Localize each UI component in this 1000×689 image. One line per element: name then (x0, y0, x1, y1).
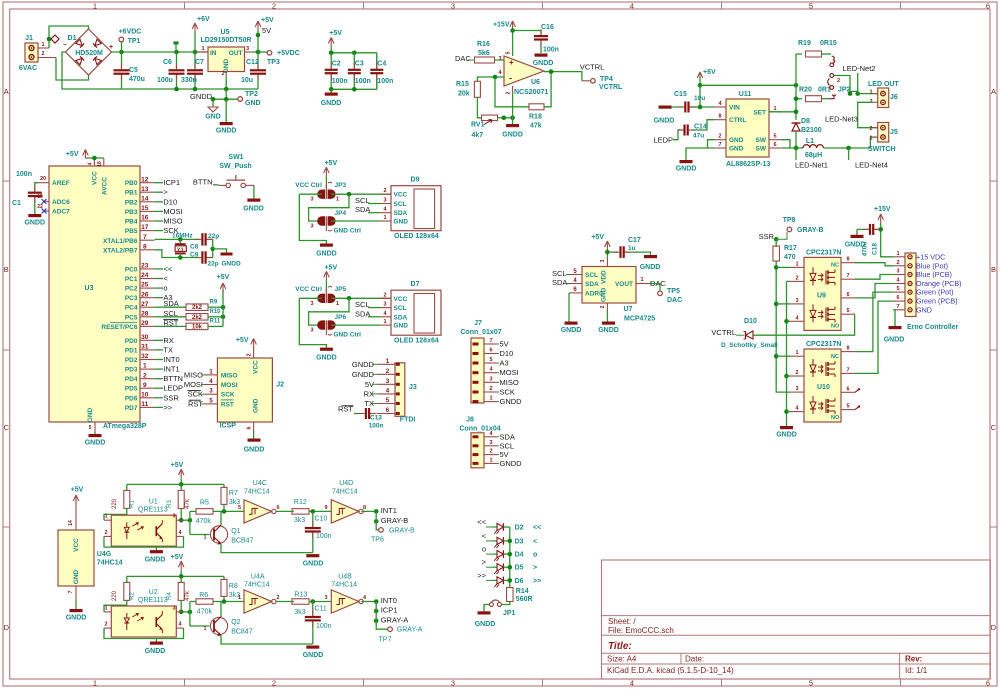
svg-text:-: - (509, 73, 512, 83)
svg-text:6VAC: 6VAC (19, 65, 37, 72)
svg-text:47k: 47k (185, 498, 191, 509)
svg-text:U4D: U4D (339, 480, 353, 487)
svg-text:RX: RX (163, 336, 173, 345)
svg-text:PB0: PB0 (125, 180, 138, 187)
svg-text:2: 2 (869, 126, 872, 132)
svg-text:3k3: 3k3 (294, 517, 305, 524)
svg-text:CPC2317N: CPC2317N (806, 341, 841, 348)
svg-text:5: 5 (489, 357, 492, 363)
svg-text:74HC14: 74HC14 (244, 582, 270, 589)
svg-text:J8: J8 (466, 417, 474, 424)
svg-text:8: 8 (143, 243, 147, 250)
svg-text:1: 1 (336, 197, 339, 203)
svg-text:1u: 1u (628, 245, 636, 252)
svg-text:32: 32 (141, 353, 149, 360)
svg-text:PD2: PD2 (125, 357, 138, 364)
svg-text:+5V: +5V (171, 462, 184, 469)
svg-text:D8: D8 (801, 118, 810, 125)
svg-text:QRE1113: QRE1113 (138, 507, 168, 514)
svg-text:6: 6 (986, 2, 990, 11)
svg-text:3: 3 (172, 514, 175, 520)
svg-text:GND: GND (729, 137, 744, 144)
svg-text:GNDD: GNDD (845, 242, 866, 249)
svg-text:<: < (163, 274, 168, 283)
svg-text:+5V: +5V (329, 30, 342, 37)
svg-text:D5: D5 (515, 565, 524, 572)
svg-text:MOSI: MOSI (184, 380, 203, 389)
svg-text:PB1: PB1 (125, 190, 138, 197)
svg-text:3: 3 (795, 298, 798, 304)
svg-text:100n: 100n (355, 78, 371, 85)
svg-text:19: 19 (37, 194, 43, 200)
svg-text:8: 8 (846, 257, 849, 263)
svg-text:74HC14: 74HC14 (332, 489, 358, 496)
svg-text:U6: U6 (531, 79, 540, 86)
svg-text:JP4: JP4 (335, 210, 347, 217)
svg-text:TP5: TP5 (667, 288, 680, 295)
svg-text:31: 31 (141, 344, 149, 351)
svg-text:SW_Push: SW_Push (219, 163, 251, 170)
svg-text:J3: J3 (409, 384, 417, 391)
svg-text:Id: 1/1: Id: 1/1 (905, 666, 928, 675)
svg-text:D3: D3 (515, 538, 524, 545)
svg-text:TP6: TP6 (371, 537, 384, 544)
svg-text:SDA: SDA (585, 281, 599, 288)
svg-text:LEDP: LEDP (163, 384, 183, 393)
svg-text:Erno Controller: Erno Controller (907, 324, 959, 331)
svg-text:4: 4 (630, 2, 634, 11)
svg-text:IN: IN (210, 50, 217, 57)
svg-text:2: 2 (276, 595, 279, 601)
svg-text:GRAY-A: GRAY-A (381, 615, 409, 624)
svg-text:100n: 100n (369, 423, 384, 430)
svg-text:4: 4 (209, 378, 213, 385)
svg-text:24: 24 (141, 272, 149, 279)
svg-text:+5V: +5V (71, 487, 84, 494)
svg-text:GND: GND (394, 219, 409, 226)
svg-text:GNDD: GNDD (145, 648, 166, 655)
svg-text:MISO: MISO (221, 372, 238, 379)
svg-text:R3: R3 (167, 500, 173, 508)
svg-text:5: 5 (209, 397, 213, 404)
svg-text:C6: C6 (163, 59, 172, 66)
svg-text:470k: 470k (196, 518, 212, 525)
svg-text:MCP4725: MCP4725 (624, 316, 655, 323)
svg-text:2: 2 (143, 372, 147, 379)
svg-text:PC4: PC4 (125, 305, 138, 312)
svg-text:1: 1 (104, 605, 107, 611)
svg-text:3: 3 (383, 198, 386, 204)
svg-text:U4G: U4G (97, 551, 112, 558)
svg-text:U11: U11 (739, 91, 752, 98)
svg-text:GNDD: GNDD (598, 327, 619, 334)
svg-text:20: 20 (40, 176, 46, 182)
svg-text:ICSP: ICSP (220, 423, 237, 430)
svg-text:C: C (991, 423, 997, 432)
svg-text:RST: RST (221, 401, 234, 408)
svg-text:8: 8 (846, 346, 849, 352)
svg-text:1: 1 (896, 251, 899, 257)
svg-text:2k2: 2k2 (192, 315, 203, 321)
svg-text:6: 6 (846, 386, 849, 392)
svg-text:U7: U7 (624, 306, 633, 313)
svg-text:SCL: SCL (394, 305, 407, 312)
svg-text:7: 7 (846, 273, 849, 279)
svg-text:PC0: PC0 (125, 266, 138, 273)
svg-text:C1: C1 (12, 200, 21, 207)
svg-text:DAC: DAC (667, 297, 682, 304)
svg-text:LED-Net1: LED-Net1 (795, 161, 828, 170)
svg-text:100n: 100n (316, 623, 332, 630)
svg-text:2: 2 (386, 368, 390, 375)
svg-text:1: 1 (489, 457, 492, 463)
svg-text:22p: 22p (208, 261, 219, 268)
svg-text:SCL: SCL (500, 441, 515, 450)
svg-text:XTAL1/PB6: XTAL1/PB6 (103, 238, 138, 245)
svg-text:+5VDC: +5VDC (277, 50, 300, 57)
svg-text:20k: 20k (458, 91, 470, 98)
svg-text:1: 1 (41, 42, 44, 48)
svg-text:GNDD: GNDD (640, 264, 661, 271)
svg-text:C13: C13 (370, 415, 382, 422)
svg-text:3: 3 (310, 197, 313, 203)
svg-text:C3: C3 (355, 61, 364, 68)
svg-text:U5: U5 (221, 29, 230, 36)
svg-text:U4B: U4B (338, 574, 352, 581)
svg-text:TP2: TP2 (245, 91, 258, 98)
svg-text:10k: 10k (192, 324, 203, 330)
svg-text:C4: C4 (377, 61, 386, 68)
svg-text:74HC14: 74HC14 (244, 489, 270, 496)
svg-text:GNDD: GNDD (244, 447, 265, 454)
svg-text:D_Schottky_Small: D_Schottky_Small (721, 342, 778, 349)
svg-text:J6: J6 (890, 94, 898, 101)
svg-text:<: < (533, 538, 537, 545)
svg-text:1: 1 (869, 136, 872, 142)
svg-text:MISO: MISO (500, 378, 519, 387)
svg-text:7: 7 (68, 590, 74, 593)
svg-text:30: 30 (141, 334, 149, 341)
svg-text:VCC: VCC (394, 192, 408, 199)
svg-text:1: 1 (386, 358, 390, 365)
svg-text:Q2: Q2 (231, 619, 240, 626)
svg-text:VCTRL: VCTRL (599, 84, 623, 91)
svg-text:TP4: TP4 (600, 76, 613, 83)
svg-text:SCK: SCK (221, 392, 235, 399)
svg-text:3: 3 (310, 301, 313, 307)
svg-text:2: 2 (718, 134, 721, 140)
svg-text:D10: D10 (163, 197, 177, 206)
svg-text:D9: D9 (411, 177, 420, 184)
svg-text:2: 2 (104, 622, 107, 628)
svg-text:SDA: SDA (552, 278, 567, 287)
svg-text:GNDD: GNDD (475, 621, 496, 628)
svg-text:>>: >> (533, 578, 541, 585)
svg-text:D: D (4, 623, 10, 632)
svg-text:VCTRL: VCTRL (711, 328, 736, 337)
svg-text:R1: R1 (130, 500, 136, 508)
svg-text:100n: 100n (332, 78, 348, 85)
svg-text:7: 7 (718, 142, 721, 148)
svg-text:2: 2 (489, 449, 492, 455)
svg-text:AVCC: AVCC (102, 177, 109, 195)
svg-text:LEDP: LEDP (653, 136, 673, 145)
svg-text:3: 3 (489, 376, 492, 382)
svg-text:6: 6 (986, 679, 990, 688)
svg-text:GNDD: GNDD (66, 615, 87, 622)
svg-text:PD3: PD3 (125, 367, 138, 374)
svg-text:3: 3 (896, 269, 899, 275)
svg-text:+5V: +5V (591, 234, 604, 241)
svg-text:3: 3 (383, 302, 386, 308)
svg-text:6: 6 (846, 292, 849, 298)
svg-text:10: 10 (141, 391, 149, 398)
svg-text:BCB47: BCB47 (231, 538, 253, 545)
svg-text:GNDD: GNDD (676, 166, 697, 173)
svg-text:+5V: +5V (324, 160, 337, 167)
svg-text:GND: GND (601, 287, 608, 302)
svg-text:D2: D2 (515, 525, 524, 532)
svg-text:D: D (991, 623, 997, 632)
svg-text:TX: TX (163, 345, 173, 354)
svg-text:+6VDC: +6VDC (119, 29, 142, 36)
svg-text:LED-Net2: LED-Net2 (843, 64, 876, 73)
svg-text:SDA: SDA (394, 314, 408, 321)
svg-text:TP8: TP8 (783, 217, 796, 224)
svg-text:VCTRL: VCTRL (580, 62, 605, 71)
svg-text:<<: << (477, 518, 486, 527)
svg-text:B: B (4, 265, 9, 274)
svg-text:VCC: VCC (253, 360, 260, 374)
svg-text:4: 4 (88, 162, 94, 165)
svg-text:SCL: SCL (585, 272, 598, 279)
svg-text:GNDD: GNDD (500, 459, 523, 468)
svg-text:D10: D10 (500, 349, 514, 358)
svg-text:Blue (PCB): Blue (PCB) (916, 270, 952, 279)
svg-text:Green (PCB): Green (PCB) (916, 297, 958, 306)
svg-text:3: 3 (600, 259, 606, 262)
svg-text:100u: 100u (157, 77, 173, 84)
svg-text:GNDD: GNDD (776, 432, 797, 439)
svg-text:PC2: PC2 (125, 286, 138, 293)
svg-text:1: 1 (795, 261, 798, 267)
svg-text:VCC Ctrl: VCC Ctrl (295, 286, 322, 293)
svg-text:1: 1 (93, 2, 97, 11)
svg-text:SCK: SCK (188, 390, 203, 399)
svg-text:3: 3 (209, 388, 213, 395)
svg-text:SDA: SDA (394, 210, 408, 217)
svg-text:R10: R10 (210, 309, 222, 315)
svg-text:Sheet: /: Sheet: / (608, 617, 636, 626)
svg-text:Conn_01x07: Conn_01x07 (460, 329, 501, 336)
svg-text:VOUT: VOUT (615, 281, 633, 288)
svg-text:VCC: VCC (73, 538, 80, 552)
svg-text:5: 5 (506, 51, 512, 54)
svg-text:14: 14 (68, 520, 74, 526)
svg-text:PB5: PB5 (125, 228, 138, 235)
svg-text:PD7: PD7 (125, 405, 138, 412)
svg-text:A: A (4, 87, 9, 96)
svg-text:47u: 47u (693, 133, 704, 140)
svg-text:8: 8 (363, 505, 366, 511)
svg-text:+: + (109, 44, 113, 51)
svg-text:4: 4 (630, 679, 634, 688)
svg-text:SDA: SDA (500, 432, 515, 441)
svg-text:R12: R12 (294, 499, 307, 506)
svg-text:Rev:: Rev: (905, 655, 922, 664)
svg-text:100n: 100n (377, 78, 393, 85)
svg-text:OLED 128x64: OLED 128x64 (394, 338, 439, 345)
svg-text:C16: C16 (541, 24, 554, 31)
svg-text:TP7: TP7 (379, 637, 392, 644)
svg-text:+15V: +15V (493, 22, 510, 29)
svg-text:6: 6 (896, 295, 899, 301)
svg-text:330n: 330n (181, 77, 197, 84)
svg-text:2: 2 (272, 2, 276, 11)
svg-text:TP1: TP1 (128, 38, 141, 45)
svg-text:3: 3 (310, 224, 313, 230)
svg-text:C: C (4, 423, 10, 432)
svg-text:MOSI: MOSI (221, 382, 238, 389)
svg-text:SW: SW (756, 146, 767, 153)
svg-text:GND: GND (253, 398, 260, 413)
svg-text:2: 2 (221, 71, 224, 77)
svg-text:25: 25 (141, 282, 149, 289)
svg-text:KiCad E.D.A. kicad (5.1.5-D-1: KiCad E.D.A. kicad (5.1.5-D-10_14) (607, 666, 734, 675)
svg-text:C9: C9 (190, 252, 199, 259)
svg-text:9: 9 (143, 382, 147, 389)
svg-text:C11: C11 (315, 606, 327, 613)
svg-text:GND Ctrl: GND Ctrl (334, 332, 362, 339)
svg-text:LED-Net4: LED-Net4 (855, 161, 888, 170)
svg-text:26: 26 (141, 291, 149, 298)
svg-text:470: 470 (784, 254, 796, 261)
svg-text:GND: GND (729, 146, 744, 153)
svg-text:VCC: VCC (92, 171, 99, 185)
svg-text:10u: 10u (241, 77, 253, 84)
svg-text:GNDD: GNDD (316, 251, 337, 258)
svg-text:16MHz: 16MHz (172, 233, 193, 240)
svg-text:U4C: U4C (253, 480, 267, 487)
svg-text:+5V: +5V (236, 337, 249, 344)
svg-text:HD520M: HD520M (75, 50, 103, 57)
svg-text:2: 2 (600, 305, 606, 308)
svg-text:7: 7 (143, 234, 147, 241)
svg-text:DAC: DAC (455, 54, 471, 63)
svg-text:ATmega328P: ATmega328P (103, 423, 147, 430)
svg-text:VIN: VIN (729, 105, 740, 112)
svg-text:2: 2 (795, 275, 798, 281)
svg-text:GNDD: GNDD (303, 561, 324, 568)
svg-text:RV1: RV1 (471, 122, 485, 129)
svg-text:<<: << (533, 525, 541, 532)
svg-text:R16: R16 (477, 41, 490, 48)
svg-text:+6V: +6V (703, 69, 716, 76)
svg-text:PC5: PC5 (125, 314, 138, 321)
svg-text:2: 2 (246, 353, 252, 356)
svg-text:2: 2 (383, 188, 386, 194)
svg-text:1: 1 (383, 319, 386, 325)
svg-text:+5V: +5V (171, 554, 184, 561)
svg-text:C18: C18 (872, 243, 879, 255)
svg-text:JP1: JP1 (503, 610, 516, 617)
svg-text:GNDD: GNDD (24, 220, 45, 227)
svg-text:GND: GND (394, 323, 409, 330)
svg-text:3: 3 (498, 56, 501, 62)
svg-text:5: 5 (846, 308, 849, 314)
svg-text:Blue (Pot): Blue (Pot) (916, 261, 948, 270)
svg-text:2: 2 (795, 370, 798, 376)
svg-text:C2: C2 (332, 61, 341, 68)
svg-text:1: 1 (640, 277, 643, 283)
svg-text:NO: NO (831, 323, 840, 329)
svg-text:GNDD: GNDD (352, 360, 375, 369)
svg-text:INT0: INT0 (381, 596, 397, 605)
svg-text:Conn_01x04: Conn_01x04 (459, 426, 500, 433)
svg-text:SW1: SW1 (228, 154, 243, 161)
svg-text:7: 7 (489, 338, 492, 344)
svg-text:2: 2 (104, 530, 107, 536)
svg-text:28: 28 (141, 310, 149, 317)
svg-text:R7: R7 (229, 490, 238, 497)
svg-text:5: 5 (809, 2, 813, 11)
svg-text:SCL: SCL (355, 196, 370, 205)
svg-text:D4: D4 (515, 552, 524, 559)
svg-text:JP3: JP3 (335, 182, 347, 189)
svg-text:13: 13 (141, 186, 149, 193)
svg-text:GND: GND (73, 569, 80, 584)
svg-text:1: 1 (383, 215, 386, 221)
svg-text:17: 17 (141, 224, 149, 231)
svg-text:CPC2317N: CPC2317N (806, 249, 841, 256)
svg-text:o: o (163, 284, 167, 293)
svg-text:GND: GND (916, 305, 932, 314)
svg-text:PD1: PD1 (125, 347, 138, 354)
svg-text:3: 3 (489, 440, 492, 446)
svg-text:5: 5 (89, 425, 92, 431)
svg-text:GRAY-A: GRAY-A (397, 627, 423, 634)
svg-text:GNDD: GNDD (303, 652, 324, 659)
svg-text:5V: 5V (500, 450, 509, 459)
svg-text:R14: R14 (516, 588, 529, 595)
svg-text:A3: A3 (500, 359, 509, 368)
svg-text:1: 1 (104, 514, 107, 520)
svg-text:5V: 5V (500, 340, 509, 349)
svg-text:R18: R18 (529, 114, 542, 121)
svg-text:GND Ctrl: GND Ctrl (334, 228, 362, 235)
svg-text:SCL: SCL (552, 269, 567, 278)
svg-text:LED OUT: LED OUT (868, 81, 899, 88)
svg-text:+5V: +5V (66, 151, 79, 158)
svg-text:470u: 470u (129, 76, 145, 83)
svg-text:CTRL: CTRL (729, 117, 746, 124)
svg-text:A: A (991, 87, 996, 96)
svg-text:18: 18 (97, 161, 103, 167)
svg-text:C5: C5 (129, 67, 138, 74)
svg-text:NC: NC (831, 262, 839, 268)
svg-text:GNDD: GNDD (500, 397, 523, 406)
svg-text:R2: R2 (130, 592, 136, 600)
svg-text:U9: U9 (817, 292, 826, 299)
svg-text:1: 1 (201, 46, 204, 52)
svg-text:3: 3 (386, 378, 390, 385)
svg-text:GRAY-B: GRAY-B (389, 527, 415, 534)
svg-text:2k2: 2k2 (192, 305, 203, 311)
svg-text:R11: R11 (210, 319, 221, 325)
svg-text:U2: U2 (149, 589, 158, 596)
svg-text:2: 2 (272, 679, 276, 688)
svg-text:7: 7 (846, 367, 849, 373)
